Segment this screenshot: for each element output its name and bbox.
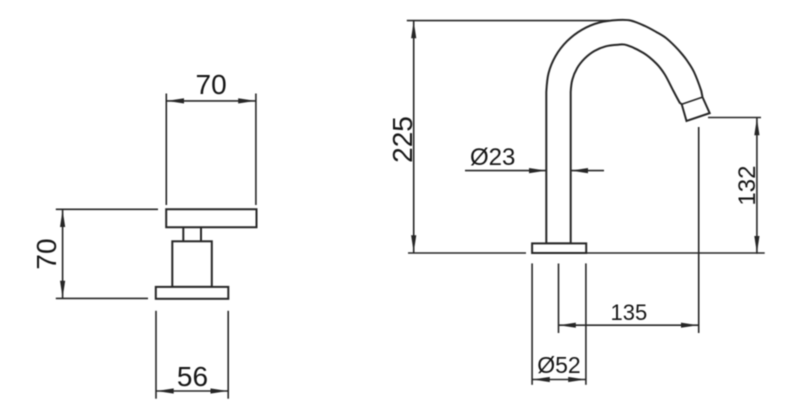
dim 225: extension line top [407,20,609,22]
spout: gooseneck tube body [546,20,709,244]
dim 225: dimension line [413,21,415,253]
arrow dim70left up [60,210,65,227]
svg-text:Ø52: Ø52 [537,352,580,378]
handle: base plate [156,287,229,299]
arrow dimØ52 left [533,377,550,382]
mounting surface line left of base [408,252,526,254]
arrow dim132 up [754,118,759,135]
handle: stem right edge [200,227,202,241]
arrow dim225 down [411,235,416,252]
arrow dim135 right [681,323,698,328]
dim Ø52: extension line right [585,263,587,384]
handle: lever bar [166,209,256,227]
dim 70 top: extension line left [165,94,167,206]
arrow dim70left down [60,281,65,298]
arrow dim70top left [167,98,184,103]
handle: stem left edge [182,227,184,241]
dim 135: dimension line [558,324,699,326]
dim 56: dimension line [156,390,228,392]
arrow dim132 down [754,236,759,253]
svg-text:70: 70 [196,69,227,100]
dim Ø23: leader right [571,170,604,172]
spout base flange [532,243,586,253]
dim 135: extension line left (tube centre) [558,264,560,334]
spout: aerator joint line [682,97,703,104]
dim 70 top: dimension line [166,100,256,102]
arrow dimØ52 right [568,377,585,382]
svg-text:Ø23: Ø23 [470,144,515,171]
svg-text:70: 70 [31,238,62,269]
arrow dim225 up [411,21,416,38]
dim 132: dimension line [756,118,758,254]
dim 70 left: extension line bottom [56,297,148,299]
arrow Ø23 right (tip at pipe left wall) [529,168,546,173]
dim 56: extension line right [227,311,229,399]
arrowheads [60,21,760,393]
svg-text:132: 132 [734,166,761,206]
svg-text:56: 56 [177,361,208,392]
dim 56: extension line left [155,311,157,399]
arrow dim70top right [238,98,255,103]
handle: body [172,241,212,287]
dim 70 left: extension line top [56,208,158,210]
dim 70 top: extension line right [255,94,257,206]
dim 135: extension line right (nozzle tip) [698,127,700,333]
svg-text:135: 135 [611,300,648,325]
dim Ø52: dimension line [532,379,586,381]
arrow dim135 left [559,323,576,328]
dim Ø23: leader left [465,170,546,172]
arrow dim56 left [157,388,174,393]
dim 70 left: dimension line [62,209,64,298]
dim Ø52: extension line left [531,263,533,384]
dim 132: extension line top [708,117,761,119]
arrow dim56 right [211,388,228,393]
arrow Ø23 left (tip at pipe right wall) [571,168,588,173]
mounting surface line right of base [586,252,765,254]
svg-text:225: 225 [387,116,418,163]
